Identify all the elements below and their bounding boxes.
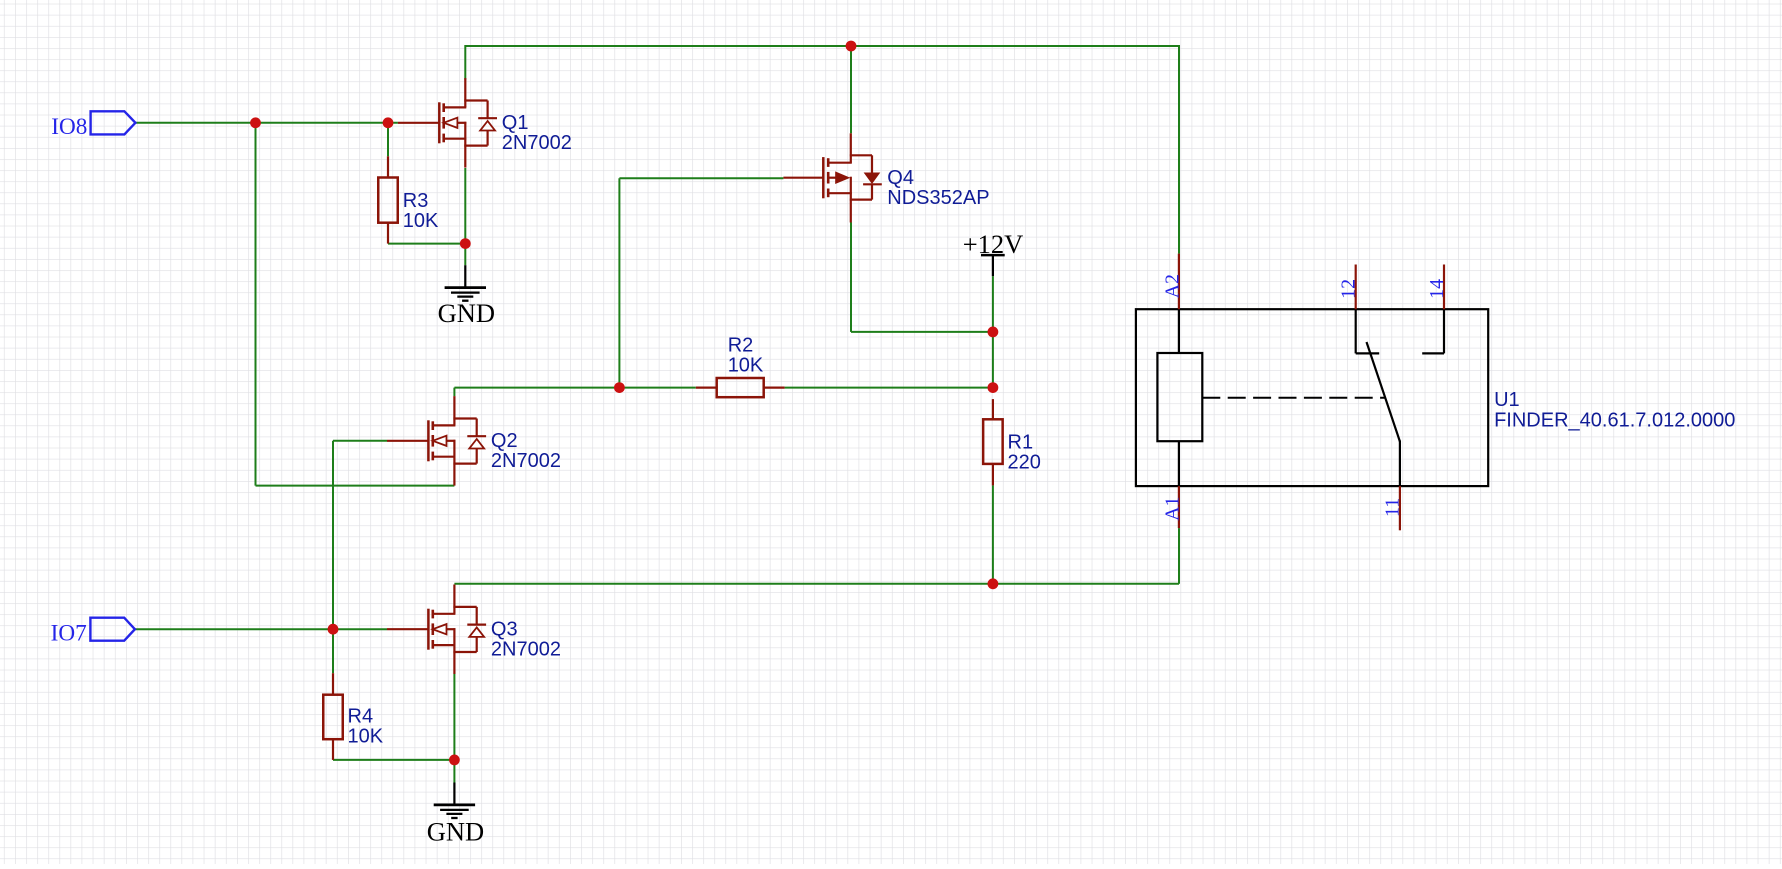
ground GND1 [438, 265, 495, 328]
relay internal A1 lead [1178, 441, 1180, 486]
resistor R2 [696, 378, 785, 397]
pin 12 [1355, 265, 1357, 310]
svg-text:FINDER_40.61.7.012.0000: FINDER_40.61.7.012.0000 [1494, 410, 1735, 432]
wire Q2 gate branch vertical [332, 441, 334, 629]
relay U1 box [1136, 309, 1488, 486]
wire IO7 horizontal [135, 628, 387, 630]
wire relay A1 drop [1178, 528, 1180, 584]
node Q3 source / R4 / GND2 [449, 755, 460, 766]
svg-text:IO8: IO8 [51, 114, 87, 140]
wire Q1 drain drop [464, 45, 466, 80]
svg-text:GND: GND [427, 817, 484, 847]
wire Q4 source down [850, 223, 852, 332]
svg-text:R3: R3 [403, 190, 429, 212]
svg-text:2N7002: 2N7002 [491, 450, 561, 472]
wire node to GND2 [453, 760, 455, 783]
svg-text:NDS352AP: NDS352AP [887, 187, 989, 209]
wire relay A2 drop [1178, 45, 1180, 254]
node IO8-R3 [383, 117, 394, 128]
wire R3 top [387, 123, 389, 157]
svg-text:A1: A1 [1162, 496, 1184, 520]
node IO8-Q2source branch [250, 117, 261, 128]
wire mid rail left [454, 387, 695, 389]
wire Q4 gate horizontal [619, 177, 783, 179]
relay coil link dashed [1202, 397, 1384, 399]
net flag IO7 [51, 618, 135, 647]
svg-text:R2: R2 [728, 335, 754, 357]
svg-text:10K: 10K [728, 355, 764, 377]
pin A2 [1178, 254, 1180, 310]
node bottom rail / R1 [988, 578, 999, 589]
wire Q1 source down [464, 168, 466, 244]
wire 12V node vertical [992, 276, 994, 388]
net flag IO8 [51, 111, 135, 140]
relay coil [1157, 353, 1202, 441]
wire Q4 drain drop [850, 46, 852, 133]
svg-text:A2: A2 [1162, 274, 1184, 298]
wire bottom rail [454, 583, 1179, 585]
pin A1 [1178, 486, 1180, 528]
node mid rail / R1 [988, 382, 999, 393]
resistor R1 [983, 399, 1003, 485]
transistor Q2 [387, 396, 486, 486]
svg-text:Q2: Q2 [491, 430, 518, 452]
svg-text:R4: R4 [348, 706, 374, 728]
node IO7 / Q2 gate branch [328, 624, 339, 635]
svg-text:10K: 10K [403, 210, 439, 232]
resistor R3 [378, 156, 398, 243]
svg-text:10K: 10K [348, 726, 384, 748]
node Q4 gate / mid rail [614, 382, 625, 393]
wire top rail [465, 45, 1179, 47]
wire R3 bottom to node [388, 243, 465, 245]
resistor R4 [323, 673, 343, 760]
wire R1 bottom [992, 485, 994, 583]
svg-text:Q3: Q3 [491, 618, 518, 640]
wire node to GND1 [464, 244, 466, 266]
wire Q2 drain stub [453, 388, 455, 397]
svg-text:14: 14 [1426, 279, 1448, 299]
svg-text:2N7002: 2N7002 [491, 638, 561, 660]
node top rail Q4 drain [846, 41, 857, 52]
ground GND2 [427, 783, 484, 847]
wire IO8 horizontal [135, 122, 398, 124]
relay internal 12 lead [1355, 309, 1357, 353]
svg-text:220: 220 [1008, 452, 1041, 474]
wire IO8 branch vertical [255, 123, 257, 486]
transistor Q4 [783, 133, 881, 222]
svg-text:Q1: Q1 [502, 112, 529, 134]
node +12V / Q4 source [988, 327, 999, 338]
svg-text:Q4: Q4 [887, 167, 914, 189]
relay switch blade [1367, 342, 1400, 442]
wire Q2 gate horizontal [333, 440, 387, 442]
transistor Q3 [387, 585, 486, 675]
svg-text:IO7: IO7 [51, 620, 87, 646]
power +12V [963, 229, 1024, 276]
pin 11 [1399, 486, 1401, 530]
svg-text:R1: R1 [1008, 432, 1034, 454]
wire Q3 source down [453, 674, 455, 760]
wire Q4 source to 12V node [851, 331, 993, 333]
wire R4 bottom to node [333, 759, 454, 761]
svg-text:12: 12 [1337, 279, 1359, 299]
relay internal 14 lead [1443, 309, 1445, 353]
relay internal 11 lead [1399, 441, 1401, 487]
svg-text:2N7002: 2N7002 [502, 132, 572, 154]
node R3/Q1source/GND [460, 238, 471, 249]
svg-text:U1: U1 [1494, 389, 1520, 411]
relay internal A2 lead [1178, 309, 1180, 353]
wire mid rail right [785, 387, 993, 389]
wire Q4 gate vertical [618, 178, 620, 387]
transistor Q1 [398, 78, 497, 168]
wire R4 top [332, 629, 334, 673]
svg-text:11: 11 [1382, 498, 1404, 517]
pin 14 [1443, 265, 1445, 310]
svg-text:GND: GND [438, 298, 495, 328]
wire to Q2 source [256, 485, 455, 487]
